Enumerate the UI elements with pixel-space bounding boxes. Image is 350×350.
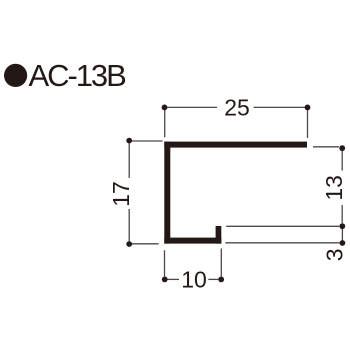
dim 10 dot left xyxy=(162,277,168,283)
dim 13 extension top xyxy=(313,146,339,148)
svg-text:AC-13B: AC-13B xyxy=(29,58,127,93)
dim 13 dot bottom / dim 3 dot top xyxy=(339,223,345,229)
dim 10 extension left xyxy=(164,250,166,276)
dim 10 dot right xyxy=(218,277,224,283)
svg-text:13: 13 xyxy=(321,175,347,201)
dim 25 dot left xyxy=(162,105,168,111)
dim 17 extension bottom xyxy=(132,243,159,245)
dim 13 line upper segment xyxy=(341,151,343,171)
dim 17 extension top xyxy=(132,140,163,142)
dim 25 line left segment xyxy=(165,106,218,108)
dim 17 dot bottom xyxy=(126,241,132,247)
svg-text:17: 17 xyxy=(108,181,134,207)
svg-text:10: 10 xyxy=(181,266,207,292)
dim 13 / dim 3 shared extension xyxy=(226,225,339,227)
dim 25 line right segment xyxy=(254,106,308,108)
dim 13 line lower segment xyxy=(341,205,343,223)
bullet marker xyxy=(4,64,27,87)
dim 10 line right segment xyxy=(208,278,218,280)
dim 25 extension left xyxy=(164,110,166,137)
dim 3 extension bottom xyxy=(225,242,339,244)
dim 10 line left segment xyxy=(168,278,180,280)
dim 25 extension right xyxy=(307,110,309,138)
dim 13 dot top xyxy=(339,145,345,151)
dim 3 dot bottom xyxy=(340,240,346,246)
profile top flange xyxy=(164,142,307,148)
profile bottom flange xyxy=(164,238,221,244)
svg-text:25: 25 xyxy=(224,94,250,120)
dim 3 line xyxy=(341,229,343,241)
dim 17 line lower segment xyxy=(128,209,130,241)
dim 25 dot right xyxy=(305,105,311,111)
svg-text:3: 3 xyxy=(321,248,347,261)
profile left web xyxy=(164,142,170,244)
dim 17 line upper segment xyxy=(128,144,130,179)
dim 10 extension right xyxy=(220,249,222,277)
profile lip stub xyxy=(216,226,222,244)
dim 17 dot top xyxy=(126,138,132,144)
